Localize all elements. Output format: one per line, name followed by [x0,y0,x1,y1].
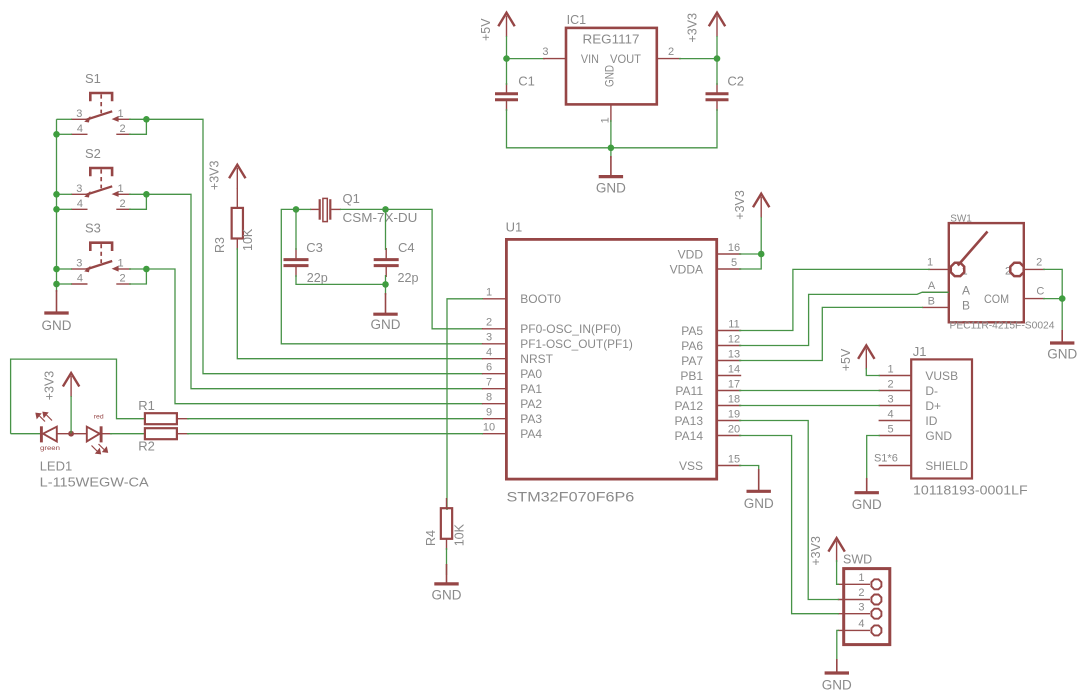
capacitor C2 [706,92,729,95]
svg-text:12: 12 [728,333,740,345]
U1 pin 20 PA14 [717,435,742,437]
power symbol +5V [498,13,514,27]
pin SW1 1 [928,268,950,270]
svg-text:3: 3 [486,332,492,344]
svg-text:C3: C3 [306,240,323,255]
svg-text:3: 3 [76,183,82,195]
wire to GND symbol [610,148,612,158]
svg-text:2: 2 [486,317,492,329]
power symbol +3V3 LED [63,373,79,387]
U1 pin 4 NRST [482,358,507,360]
pin C4 top [385,248,387,260]
svg-text:R1: R1 [138,398,155,413]
svg-text:S1: S1 [85,71,101,86]
svg-text:PA3: PA3 [520,412,542,426]
svg-text:3: 3 [887,393,893,405]
wire C3 bottom to node [296,275,386,284]
ground under R4 [446,564,448,584]
svg-text:10118193-0001LF: 10118193-0001LF [913,483,1028,498]
svg-text:SHIELD: SHIELD [925,459,968,473]
pin SWD 4 [838,629,870,631]
ground under J1 [866,478,868,493]
node S3 pin1 junction [143,266,150,273]
header SWD outline [844,569,890,645]
svg-text:5: 5 [887,423,893,435]
svg-text:D-: D- [925,384,938,398]
wire Q1 left node [296,208,311,210]
U1 pin 2 PF0-OSC_IN(PF0) [482,328,507,330]
svg-text:red: red [94,414,104,421]
led LED1 green [40,426,43,442]
svg-text:+3V3: +3V3 [686,13,700,43]
resistor R1 [145,413,177,424]
svg-text:GND: GND [603,65,617,87]
svg-text:1: 1 [858,572,864,584]
wire R3 to NRST [237,248,483,359]
pin J1 1 VUSB [879,375,912,377]
svg-text:L-115WEGW-CA: L-115WEGW-CA [40,475,149,490]
svg-text:PEC11R-4215F-S0024: PEC11R-4215F-S0024 [950,320,1055,332]
svg-text:8: 8 [486,392,492,404]
svg-text:GND: GND [42,318,72,333]
encoder SW1 lever [958,232,988,266]
wire node to gnd [385,284,387,295]
pin R3 bottom [236,238,238,250]
pin J1 3 D+ [879,405,912,407]
wire left node to corner [281,209,483,343]
svg-text:CSM-7X-DU: CSM-7X-DU [343,210,418,225]
wire C2 top [716,59,718,85]
U1 pin 14 PB1 [717,375,742,377]
svg-text:GND: GND [822,678,852,693]
capacitor C3 [284,258,309,261]
capacitor C1 [495,92,518,95]
wire C to gnd [1061,299,1063,332]
svg-text:2: 2 [120,123,126,135]
node VDD junction [758,251,765,258]
pin LED green anode [57,433,71,435]
svg-text:2: 2 [1036,256,1042,268]
wire +3V3 LED stem [70,396,72,434]
svg-text:B: B [962,299,970,313]
wire right node to PF0 [386,209,484,328]
node S1 pin1 junction [143,116,150,123]
svg-text:10K: 10K [453,523,467,546]
wire IC1 VOUT to node [679,58,717,60]
svg-text:NRST: NRST [520,352,553,366]
wire BOOT0 to R4 [447,299,483,510]
pin R1 right [177,418,189,420]
svg-text:6: 6 [486,362,492,374]
node Q1 left [293,206,300,213]
pin C1 top [506,83,508,94]
pin R2 right [177,433,189,435]
pin R3 top [236,188,238,209]
wire PA7 to SW1 B [739,307,923,360]
wire SWD pin4 to gnd [837,630,839,661]
svg-text:22p: 22p [307,270,328,285]
svg-text:PA6: PA6 [681,339,703,353]
U1 pin 10 PA4 [482,433,507,435]
node S2 pin4 [53,206,60,213]
wire S2 to PA1 [146,194,483,388]
node LED common anode [68,431,74,437]
svg-text:17: 17 [728,378,740,390]
svg-text:Q1: Q1 [343,191,360,206]
wire LED row left [11,433,42,435]
wire PA13 to SWD pin2 [739,421,839,600]
wire C2 bottom to gnd rail [611,109,717,148]
U1 pin 12 PA6 [717,345,742,347]
svg-text:COM: COM [984,292,1009,306]
svg-text:4: 4 [858,618,864,630]
svg-text:+3V3: +3V3 [43,371,57,401]
wire PA6 to SW1 A [739,292,949,345]
wire VSS to gnd [739,466,759,472]
pin LED red anode [71,433,87,435]
resistor R3 [232,208,243,239]
node S2 pin1 junction [143,191,150,198]
svg-text:VOUT: VOUT [610,52,642,66]
svg-text:C4: C4 [398,240,415,255]
svg-text:14: 14 [728,363,740,375]
wire C4 bottom to node [385,275,387,284]
crystal Q1 [319,199,321,220]
svg-text:VSS: VSS [679,459,703,473]
ground under IC1 [610,156,612,177]
U1 pin 19 PA13 [717,420,742,422]
wire S2 pins 1-2 right [129,193,146,195]
svg-text:9: 9 [486,407,492,419]
wire LED frame top [11,359,146,434]
svg-text:4: 4 [887,408,893,420]
svg-text:A: A [928,280,936,292]
svg-text:PF1-OSC_OUT(PF1): PF1-OSC_OUT(PF1) [520,337,633,351]
voltage regulator IC1 [566,28,657,105]
wire rail to gnd [56,284,58,292]
U1 pin 13 PA7 [717,360,742,362]
encoder SW1 pad1 [951,263,964,276]
svg-text:4: 4 [77,273,83,285]
svg-text:A: A [962,284,970,298]
node C3 C4 gnd [382,281,389,288]
svg-text:1: 1 [486,287,492,299]
mcu U1 outline [506,239,716,479]
ground under SWD [836,659,838,673]
svg-text:13: 13 [728,348,740,360]
svg-text:REG1117: REG1117 [583,32,640,47]
wire R1 to PA3 [187,418,483,420]
svg-text:PA0: PA0 [520,367,542,381]
wire R2 to PA4 [187,433,483,435]
power symbol +3V3 R3 [229,165,245,179]
svg-text:GND: GND [852,497,882,512]
wire Q1 right node [340,208,386,210]
ground under VSS [758,469,760,491]
pin C2 bottom [716,100,718,111]
svg-text:2: 2 [120,198,126,210]
U1 pin 18 PA12 [717,405,742,407]
svg-text:3: 3 [76,108,82,120]
ground under SW1 [1061,330,1063,343]
svg-text:PA1: PA1 [520,382,542,396]
wire R4 to gnd [446,548,448,575]
svg-text:U1: U1 [506,220,523,235]
U1 pin 16 VDD [717,253,742,255]
pin SW1 B [922,306,949,308]
U1 pin 5 VDDA [717,268,742,270]
node S3 pin4 [53,281,60,288]
svg-text:10K: 10K [241,228,255,251]
svg-text:PA13: PA13 [675,414,704,428]
node S3 pin3 [53,266,60,273]
svg-text:PA7: PA7 [681,354,703,368]
U1 pin 17 PA11 [717,390,742,392]
pin SW1 C [1024,298,1045,300]
svg-text:3: 3 [858,601,864,613]
svg-text:D+: D+ [925,399,941,413]
power symbol +3V3 SWD [828,538,844,552]
svg-text:3: 3 [76,258,82,270]
pin SWD 1 [838,583,870,585]
wire C3 top [295,209,297,250]
wire PA5 to SW1 pin1 [739,269,930,330]
svg-text:PA14: PA14 [675,429,704,443]
node +3V3 junction [714,55,721,62]
connector J1 outline [911,359,972,478]
wire +3V3 down to node [760,217,762,254]
wire S3 pins 3-4 left [57,268,73,270]
ground under switches [56,290,58,313]
svg-text:+5V: +5V [479,18,493,41]
U1 pin 15 VSS [717,465,742,467]
svg-text:GND: GND [596,181,626,196]
svg-text:2: 2 [120,273,126,285]
wire C1 bottom to gnd rail [507,109,611,148]
svg-text:LED1: LED1 [40,459,73,474]
wire S1 to PA0 [146,119,483,373]
wire PA14 to SWD pin3 [739,436,839,614]
wire IC1 gnd pin down [610,120,612,148]
U1 pin 1 BOOT0 [482,298,507,300]
power symbol +3V3 VDD [753,194,769,208]
ground under C4 [385,293,387,314]
pin Q1 left [310,208,319,210]
svg-text:1: 1 [887,363,893,375]
svg-text:R2: R2 [138,439,155,454]
pin R4 bottom [446,538,448,550]
U1 pin 8 PA2 [482,403,507,405]
node Q1 right [382,206,389,213]
wire S2 pins 3-4 left [57,193,73,195]
svg-text:1: 1 [600,117,612,123]
led LED1 red [87,427,100,442]
svg-text:S2: S2 [85,146,101,161]
svg-text:20: 20 [728,423,740,435]
wire S1 pins 1-2 right [129,118,146,120]
svg-text:PA12: PA12 [675,399,704,413]
wire PA11 to J1 D- [739,390,880,392]
wire red LED to R2 [110,433,146,435]
svg-text:1: 1 [927,256,933,268]
svg-text:3: 3 [542,46,548,58]
pin C3 bottom [295,266,297,277]
pin C1 bottom [506,100,508,111]
svg-text:R3: R3 [213,237,227,253]
svg-text:S3: S3 [85,221,101,236]
svg-text:VUSB: VUSB [925,369,958,383]
U1 pin 11 PA5 [717,330,742,332]
svg-text:GND: GND [432,588,462,603]
svg-text:+5V: +5V [839,348,853,371]
pin J1 2 D- [879,390,912,392]
svg-text:7: 7 [486,377,492,389]
pin 3 IC1 [543,58,566,60]
pin 1 IC1 GND [610,104,612,122]
wire VDD to node [739,253,761,255]
resistor R4 [441,508,452,539]
svg-text:VIN: VIN [581,52,599,66]
svg-text:green: green [40,445,60,452]
capacitor C4 [374,258,399,261]
U1 pin 6 PA0 [482,373,507,375]
svg-text:ID: ID [925,414,937,428]
svg-text:4: 4 [77,198,83,210]
power symbol +5V J1 [858,345,874,359]
svg-text:18: 18 [728,393,740,405]
svg-text:2: 2 [858,587,864,599]
wire +5V to node [506,36,508,59]
svg-text:R4: R4 [424,530,438,546]
svg-text:PA11: PA11 [675,384,703,398]
pin C2 top [716,83,718,94]
svg-text:PA5: PA5 [681,324,703,338]
svg-text:+3V3: +3V3 [809,536,823,566]
wire PA12 to J1 D+ [739,405,880,407]
encoder SW1 outline [949,223,1024,322]
wire switches common left rail [56,119,58,284]
pin C4 bottom [385,266,387,277]
svg-text:4: 4 [486,347,492,359]
svg-text:1: 1 [117,183,123,195]
node gnd rail junction [608,145,615,152]
pin J1 4 ID [879,420,912,422]
svg-text:J1: J1 [913,344,927,359]
svg-text:C2: C2 [727,74,744,89]
svg-text:C: C [1036,286,1044,298]
svg-text:SWD: SWD [843,553,872,567]
svg-text:2: 2 [668,46,674,58]
wire +3V3 to SWD pin1 [837,560,839,584]
svg-text:B: B [928,295,935,307]
pin R4 top [446,498,448,509]
svg-text:VDD: VDD [678,247,704,261]
svg-text:1: 1 [117,258,123,270]
encoder SW1 pad2 [1010,263,1023,276]
svg-text:+3V3: +3V3 [208,161,222,191]
pin SW1 2 [1024,268,1045,270]
pin LED red cathode [101,433,112,435]
pin SWD 3 [838,613,870,615]
power symbol +3V3 top [709,13,725,27]
pin C3 top [295,248,297,260]
wire +5V to J1 pin1 [866,368,880,376]
svg-text:4: 4 [77,123,83,135]
pin SW1 A [922,291,949,293]
wire S3 pins 1-2 right [129,268,146,270]
svg-text:PA4: PA4 [520,427,542,441]
pin Q1 right [331,208,341,210]
svg-text:GND: GND [371,317,401,332]
svg-text:PA2: PA2 [520,397,542,411]
wire SW1 pin2 to C [1043,269,1062,298]
svg-text:19: 19 [728,408,740,420]
wire C1 top [506,59,508,85]
U1 pin 7 PA1 [482,388,507,390]
svg-text:PB1: PB1 [680,369,703,383]
svg-text:C1: C1 [518,74,535,89]
wire C junction [1043,298,1062,300]
pin 2 IC1 [657,58,681,60]
wire S3 to PA2 [146,269,483,404]
svg-text:GND: GND [925,429,952,443]
svg-text:15: 15 [728,453,740,465]
svg-text:16: 16 [728,242,740,254]
pin SWD 2 [838,599,870,601]
node S1 pin4 [53,131,60,138]
pin J1 6 SHIELD [879,465,912,467]
wire S1 pins 3-4 left [57,118,73,120]
wire C4 top [385,209,387,250]
wire J1 gnd [867,436,880,481]
svg-text:S1*6: S1*6 [874,453,898,465]
svg-text:IC1: IC1 [567,13,587,27]
svg-text:+3V3: +3V3 [733,190,747,220]
svg-text:SW1: SW1 [950,214,972,225]
node SW1 C [1059,295,1066,302]
resistor R2 [145,428,177,439]
svg-text:22p: 22p [398,270,419,285]
U1 pin 3 PF1-OSC_OUT(PF1) [482,343,507,345]
wire VDDA to node [739,254,761,269]
svg-text:1: 1 [117,108,123,120]
svg-text:10: 10 [483,422,495,434]
wire node to IC1 VIN [507,58,546,60]
svg-text:11: 11 [728,318,739,330]
svg-text:5: 5 [731,257,737,269]
U1 pin 9 PA3 [482,418,507,420]
pin J1 5 GND [879,435,912,437]
node +5V junction [503,55,510,62]
svg-text:PF0-OSC_IN(PF0): PF0-OSC_IN(PF0) [520,322,621,336]
svg-text:VDDA: VDDA [670,262,703,276]
svg-text:GND: GND [1047,347,1077,362]
svg-text:GND: GND [744,496,774,511]
wire +3V3 to node [716,36,718,59]
svg-text:STM32F070F6P6: STM32F070F6P6 [507,490,635,505]
svg-text:2: 2 [887,378,893,390]
svg-text:BOOT0: BOOT0 [520,292,561,306]
node S2 pin3 [53,191,60,198]
